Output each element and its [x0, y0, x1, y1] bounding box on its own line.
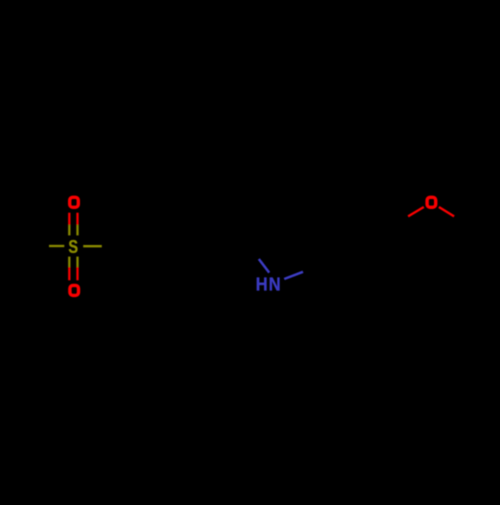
svg-text:H: H: [256, 273, 268, 294]
svg-text:S: S: [68, 236, 78, 257]
svg-text:N: N: [269, 273, 281, 294]
